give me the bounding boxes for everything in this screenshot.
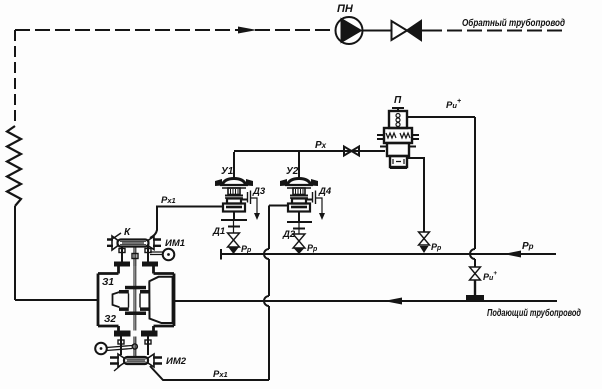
svg-text:Подающий трубопровод: Подающий трубопровод <box>487 307 581 319</box>
actuator ИМ2 <box>95 343 132 355</box>
svg-text:ПН: ПН <box>337 3 354 15</box>
check valve <box>392 21 408 40</box>
svg-text:Д1: Д1 <box>212 226 225 237</box>
svg-text:Обратный трубопровод: Обратный трубопровод <box>462 17 565 29</box>
svg-text:П: П <box>394 95 402 106</box>
stems under valve К <box>119 247 151 267</box>
arrow on Рр row <box>504 251 521 258</box>
mixer body <box>98 267 174 332</box>
mixer internals: plug walls <box>129 294 141 308</box>
discharge Д3: bars and down arrow <box>248 191 261 221</box>
svg-text:Рх1: Рх1 <box>161 195 176 206</box>
end tick of Рр row <box>220 249 222 260</box>
valve on Px line <box>344 147 352 156</box>
regulator У1 <box>215 152 253 212</box>
wire: Px1 lower line <box>150 366 269 380</box>
impulse column Д1 under У1 <box>221 212 247 255</box>
svg-text:У2: У2 <box>286 166 299 177</box>
impulse column Д2 under У2 <box>287 212 312 255</box>
actuator ИМ1 <box>150 249 174 261</box>
pump ПН <box>336 17 363 44</box>
svg-text:У1: У1 <box>221 166 234 177</box>
wire: Px line <box>234 150 385 152</box>
valve К assembly top <box>107 233 161 250</box>
arrow on supply line <box>384 298 402 305</box>
wire: П top right to Pu+ <box>407 116 475 118</box>
valve ИМ2 <box>110 354 162 371</box>
stems above valve ИМ2 <box>118 337 151 358</box>
resistor: heating system load zigzag <box>7 126 21 206</box>
svg-text:Д2: Д2 <box>282 229 296 240</box>
wire: left riser solid <box>14 206 16 300</box>
flange blocks top <box>114 262 130 267</box>
wire: supply pipeline row <box>174 300 557 302</box>
svg-text:ИМ2: ИМ2 <box>166 356 187 367</box>
arrow on top dashed line <box>238 27 257 34</box>
pilot П <box>377 108 419 168</box>
svg-text:Д4: Д4 <box>318 186 332 197</box>
svg-text:Рр: Рр <box>522 241 534 252</box>
svg-text:З1: З1 <box>102 277 114 288</box>
wire: left riser dashed <box>14 30 16 126</box>
valve on П column <box>419 232 430 253</box>
wire: Px1 upper line from У1 to valve К <box>150 207 223 239</box>
svg-text:З2: З2 <box>104 314 116 325</box>
wire: Px1 riser with hops <box>268 206 270 250</box>
flange blocks bottom <box>114 331 131 337</box>
wire: Рр impulse row <box>221 253 264 255</box>
wire: pump to check valve <box>363 30 392 32</box>
wire: top return pipeline dashed line <box>15 29 334 31</box>
mixer internals: left cup <box>113 292 120 307</box>
wire: right dashed return line <box>427 30 565 32</box>
svg-text:К: К <box>124 227 131 238</box>
mixer internals: right cone block <box>149 277 173 323</box>
wire: Pu+ riser with hop over Рр row <box>474 117 476 249</box>
svg-text:Рх1: Рх1 <box>213 369 228 380</box>
pressure tap on supply line <box>466 280 484 300</box>
svg-text:ИМ1: ИМ1 <box>165 238 185 249</box>
seat bars <box>125 286 146 290</box>
mixer stem <box>134 266 136 331</box>
discharge Д4: bars and down arrow <box>313 191 326 221</box>
wire: П bottom right down to Рр row <box>408 158 424 232</box>
wire: У2 left port to Px1 riser <box>269 205 289 207</box>
regulator У2 <box>280 152 318 212</box>
svg-text:Рх: Рх <box>315 140 327 151</box>
svg-text:Д3: Д3 <box>252 186 266 197</box>
valve Ри+ <box>470 267 481 280</box>
wire: left horizontal to mixer <box>15 299 98 301</box>
wire: check valve to right dashed <box>421 30 427 32</box>
